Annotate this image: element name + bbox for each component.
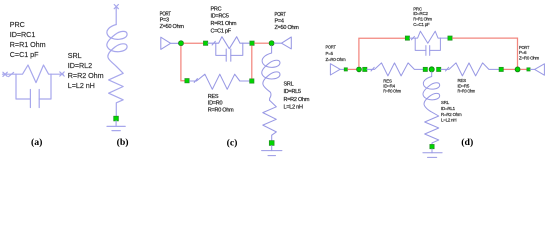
wire lead left (part a PRC): [3, 73, 17, 75]
node junction A (part c port3): [179, 41, 184, 46]
svg-text:Z=R0 Ohm: Z=R0 Ohm: [519, 56, 540, 61]
node (part b SRL bottom): [114, 116, 119, 121]
svg-text:Z=R0 Ohm: Z=R0 Ohm: [326, 57, 347, 62]
wire A to PRC (part c): [184, 42, 204, 44]
svg-text:C=C1 pF: C=C1 pF: [413, 22, 430, 27]
ground (part b): [107, 121, 125, 131]
PRC RC5 (part c): leads: [208, 41, 250, 45]
svg-text:R=R1 Ohm: R=R1 Ohm: [10, 40, 46, 49]
port P3 triangle (part c): [161, 37, 179, 49]
svg-text:Z=50 Ohm: Z=50 Ohm: [160, 24, 185, 30]
node PRC pin1 (part c): [203, 41, 207, 45]
svg-text:R=R2 Ohm: R=R2 Ohm: [68, 71, 104, 80]
node R4 pin1 (part d): [363, 67, 367, 71]
svg-text:PRC: PRC: [211, 7, 222, 13]
resistor R1 zigzag (part a PRC): [16, 65, 51, 83]
svg-text:R=R1 Ohm: R=R1 Ohm: [211, 21, 237, 27]
svg-text:P=4: P=4: [275, 19, 284, 25]
resistor SRL RL5 zigzag (part c): [263, 100, 277, 140]
svg-text:RES: RES: [208, 94, 219, 100]
value label RES R5 (part d): [458, 78, 476, 93]
node pin2 x-mark (part a PRC right): [60, 72, 64, 76]
svg-text:P=3: P=3: [160, 18, 169, 24]
svg-text:Z=50 Ohm: Z=50 Ohm: [275, 25, 300, 31]
node pin1 x-mark (part b SRL top): [114, 5, 118, 9]
node R5 pin1 (part d): [437, 67, 441, 71]
resistor RES R0 (part c): [190, 74, 250, 89]
node port6 pin (part d): [527, 68, 530, 71]
capacitor (part d PRC): [415, 38, 440, 55]
wire top right rail (part d): [452, 38, 517, 67]
svg-text:R=R2 Ohm: R=R2 Ohm: [441, 112, 462, 117]
svg-text:SRL: SRL: [284, 82, 294, 88]
node RES pin1 (part c): [185, 79, 189, 83]
svg-text:(b): (b): [117, 137, 129, 148]
svg-text:C=C1 pF: C=C1 pF: [211, 28, 232, 34]
svg-text:PORT: PORT: [326, 45, 337, 50]
wire PRC to junction B (part c): [254, 42, 269, 44]
resistor RES R5 (part d): [441, 63, 500, 76]
node junction M (part d): [429, 67, 434, 72]
node PRC pin2 (part c): [250, 41, 254, 45]
node junction L (part d): [357, 67, 362, 72]
svg-text:R=R0 Ohm: R=R0 Ohm: [208, 107, 234, 113]
svg-text:R=R2 Ohm: R=R2 Ohm: [284, 97, 310, 103]
value label PRC RC2 (part d): [413, 6, 432, 27]
svg-text:L=L2 nH: L=L2 nH: [68, 81, 95, 90]
node SRL bottom (part c): [269, 141, 274, 146]
svg-text:L=L2 nH: L=L2 nH: [284, 105, 303, 111]
node SRL bottom (part d): [430, 144, 434, 148]
svg-text:(a): (a): [31, 137, 42, 148]
wire left rail (part c): [181, 46, 185, 81]
value label PRC RC5 (part c): [211, 7, 237, 35]
svg-text:ID=RL1: ID=RL1: [441, 106, 456, 111]
value label PORT P=3 (part c): [160, 12, 185, 31]
svg-text:P=6: P=6: [519, 50, 527, 55]
value label PRC RC1 (part a): [10, 20, 46, 59]
resistor (part c PRC zigzag): [216, 37, 243, 49]
port P5 triangle (part d): [330, 64, 344, 75]
node pin1 x-mark (part a PRC left): [3, 72, 14, 76]
value label PORT P=4 (part c): [275, 12, 300, 31]
port P4 triangle (part c): [274, 37, 291, 49]
value label RES R0 (part c): [208, 94, 234, 113]
wire junction R to port6 pin (part d): [503, 68, 515, 70]
value label PORT P=6 (part d): [519, 45, 540, 61]
wire junction R right (part d): [520, 68, 527, 70]
node PRC pin2 (part d): [448, 36, 452, 40]
svg-text:P=5: P=5: [326, 51, 334, 56]
inductor L2 coil (part b): [107, 25, 127, 67]
wire left rail up and top (part d): [359, 38, 405, 67]
capacitor C1 (part a PRC): [16, 74, 51, 107]
svg-text:(d): (d): [461, 137, 473, 148]
svg-text:ID=RL5: ID=RL5: [284, 89, 301, 95]
svg-text:SRL: SRL: [441, 100, 450, 105]
node port5 pin (part d): [344, 68, 347, 71]
svg-text:R=R0 Ohm: R=R0 Ohm: [458, 89, 476, 94]
svg-text:L=L2 nH: L=L2 nH: [441, 118, 456, 123]
svg-text:PORT: PORT: [519, 45, 530, 50]
ground (part d): [423, 149, 442, 158]
node junction R (part d): [515, 67, 520, 72]
node R4 pin2 (part d): [423, 67, 427, 71]
svg-text:ID=RL2: ID=RL2: [68, 61, 92, 70]
svg-text:R=R0 Ohm: R=R0 Ohm: [383, 89, 401, 94]
resistor (part d PRC zigzag): [415, 31, 440, 43]
svg-text:PRC: PRC: [10, 20, 25, 29]
node PRC pin1 (part d): [405, 36, 409, 40]
wire lead (part b SRL top): [115, 7, 117, 25]
svg-text:ID=RC5: ID=RC5: [211, 14, 229, 20]
resistor R2 zigzag (part b): [109, 67, 124, 116]
svg-text:ID=RC1: ID=RC1: [10, 30, 36, 39]
node R5 pin2 (part d): [499, 67, 503, 71]
svg-text:PORT: PORT: [275, 12, 287, 18]
node junction B (part c): [269, 41, 274, 46]
value label PORT P=5 (part d): [326, 45, 347, 62]
value label SRL RL1 (part d): [441, 100, 462, 123]
capacitor (part c PRC): [216, 43, 243, 61]
wire port5 to junction L (part d): [348, 68, 357, 70]
svg-text:PORT: PORT: [160, 12, 172, 18]
ground (part c): [262, 146, 282, 156]
svg-text:(c): (c): [227, 137, 238, 148]
value label SRL RL2 (part b): [68, 51, 104, 90]
resistor RES R4 (part d): [367, 63, 423, 76]
svg-text:ID=RC2: ID=RC2: [413, 11, 428, 16]
svg-text:ID=R0: ID=R0: [208, 101, 223, 107]
inductor coil SRL RL5 (part c): [262, 46, 280, 100]
inductor coil SRL RL1 (part d): [423, 72, 440, 111]
value label RES R4 (part d): [383, 79, 401, 94]
node RES pin2 (part c): [250, 79, 254, 83]
wire lead right (part a PRC): [51, 73, 63, 75]
value label SRL RL5 (part c): [284, 82, 310, 111]
resistor SRL RL1 zigzag (part d): [425, 111, 439, 144]
svg-text:SRL: SRL: [68, 51, 82, 60]
port P6 triangle (part d): [530, 64, 544, 75]
svg-text:R=R1 Ohm: R=R1 Ohm: [413, 17, 432, 22]
svg-text:C=C1 pF: C=C1 pF: [10, 50, 39, 59]
wire right rail (part c): [251, 46, 253, 79]
PRC RC2 leads (part d): [410, 36, 448, 39]
